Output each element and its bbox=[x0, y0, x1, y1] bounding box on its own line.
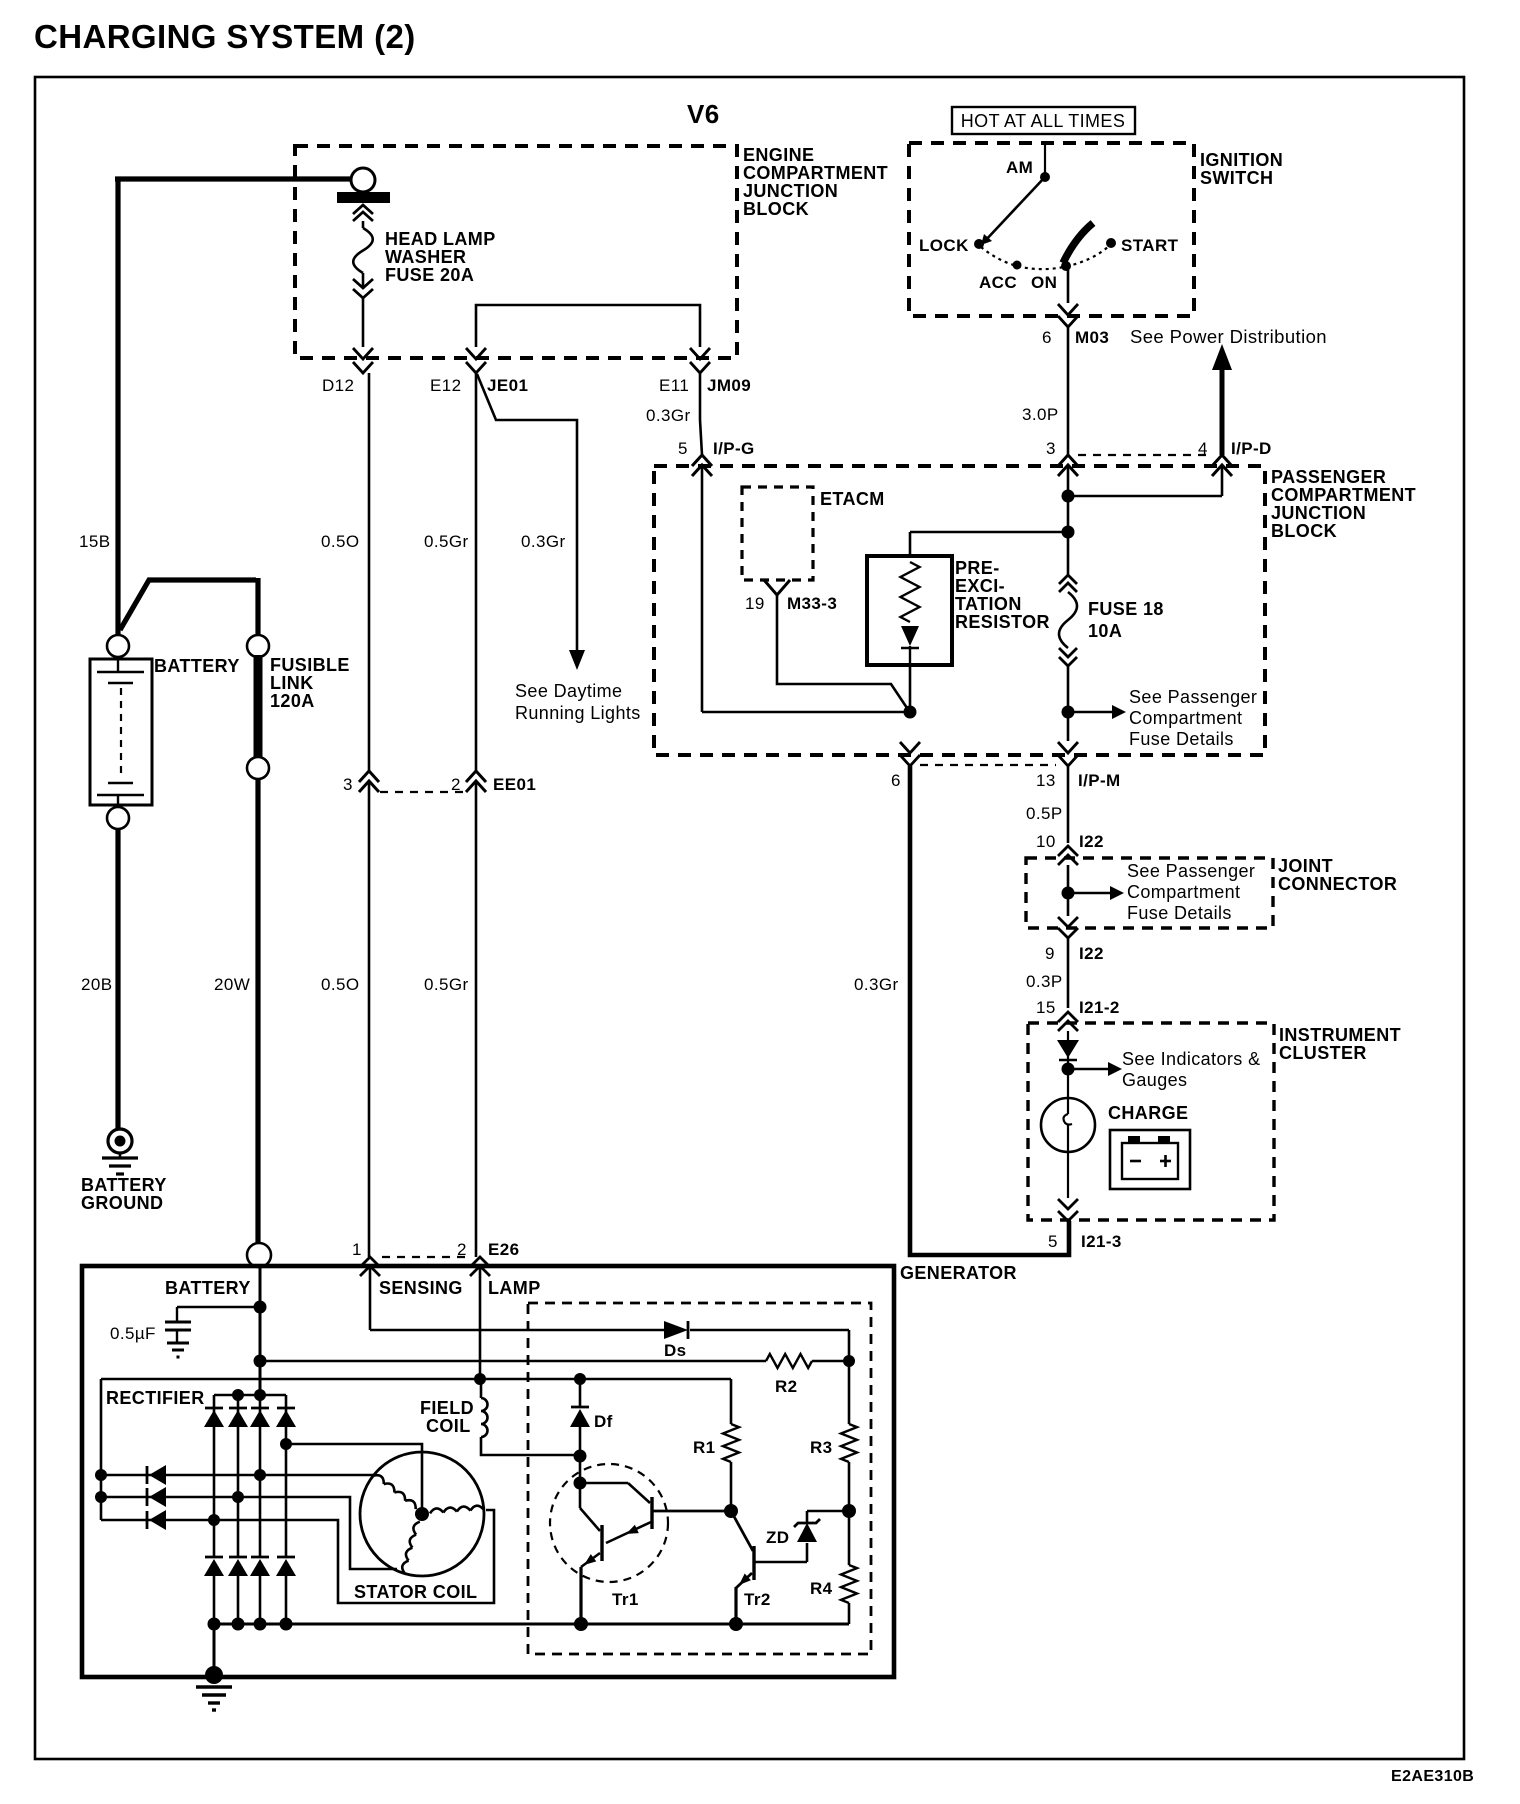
label HEAD LAMP WASHER FUSE 20A bbox=[385, 229, 496, 285]
stator coil circle bbox=[360, 1452, 484, 1576]
svg-text:Fuse Details: Fuse Details bbox=[1127, 903, 1232, 923]
resistor R4 bbox=[841, 1565, 857, 1603]
node Tr2 emitter rail bbox=[729, 1617, 743, 1631]
wire E11 to I/P-G bbox=[700, 373, 702, 455]
node START bbox=[1106, 236, 1179, 255]
svg-text:I21-2: I21-2 bbox=[1079, 998, 1120, 1017]
fuse 18 chevrons top bbox=[1059, 575, 1077, 592]
node Tr1 emitter rail bbox=[574, 1617, 588, 1631]
svg-text:SWITCH: SWITCH bbox=[1200, 168, 1273, 188]
resistor R3 bbox=[841, 1424, 857, 1462]
connector 5 I/P-G chevrons bbox=[692, 455, 712, 476]
svg-text:R2: R2 bbox=[775, 1377, 798, 1396]
svg-text:0.3Gr: 0.3Gr bbox=[854, 975, 899, 994]
label 5 I/P-G bbox=[678, 439, 755, 458]
label 15 I21-2 bbox=[1036, 998, 1120, 1017]
rectifier diode D1 top bbox=[204, 1408, 224, 1427]
generator battery terminal circle bbox=[247, 1243, 271, 1267]
wire to pre-excitation resistor bbox=[910, 532, 1068, 556]
label BATTERY GROUND bbox=[81, 1175, 167, 1213]
head lamp washer fuse chevrons top bbox=[353, 205, 373, 221]
battery terminal circle bottom bbox=[107, 807, 129, 829]
field coil lead top bbox=[480, 1379, 483, 1398]
charge battery icon bbox=[1110, 1130, 1190, 1189]
svg-text:CHARGING SYSTEM (2): CHARGING SYSTEM (2) bbox=[34, 18, 416, 55]
label 10 I22 bbox=[1036, 832, 1104, 851]
transistor Tr1 collector links bbox=[580, 1483, 650, 1531]
connector 5 I21-3 chevrons bbox=[1058, 1199, 1078, 1221]
node pre-excitation output bbox=[904, 706, 917, 719]
svg-text:0.5Gr: 0.5Gr bbox=[424, 975, 469, 994]
node phase1 col3 bbox=[254, 1469, 266, 1481]
svg-text:Ds: Ds bbox=[664, 1341, 687, 1360]
node AM bbox=[1006, 158, 1050, 182]
wire ON to M03 bbox=[1067, 266, 1070, 303]
node trio row1 bbox=[95, 1469, 107, 1481]
svg-text:I22: I22 bbox=[1079, 944, 1104, 963]
battery ground symbol bbox=[102, 1129, 138, 1174]
arrow see passenger fuse details joint bbox=[1068, 886, 1124, 900]
label ENGINE COMPARTMENT JUNCTION BLOCK bbox=[743, 145, 888, 219]
svg-text:BATTERY: BATTERY bbox=[81, 1175, 167, 1195]
transistor Tr2 emitter bbox=[736, 1573, 752, 1624]
fuse 18 element bbox=[1059, 592, 1077, 648]
wire L rail bbox=[101, 1378, 731, 1381]
rectifier column 2 lower bbox=[237, 1576, 240, 1624]
wire Ds line bbox=[370, 1330, 849, 1361]
label R2 bbox=[775, 1377, 798, 1396]
wire I/P-G vertical bbox=[702, 465, 904, 712]
label ZD bbox=[766, 1528, 789, 1547]
label 0.3Gr generator bbox=[854, 975, 899, 994]
label 6 M03 bbox=[1042, 328, 1109, 347]
transistor Tr1 driver base bar bbox=[650, 1497, 653, 1529]
svg-text:E2AE310B: E2AE310B bbox=[1391, 1768, 1474, 1785]
label 15B bbox=[79, 532, 110, 551]
connector 15 chevrons bbox=[1058, 1012, 1078, 1031]
svg-text:0.3Gr: 0.3Gr bbox=[521, 532, 566, 551]
label CHARGE bbox=[1108, 1103, 1188, 1123]
label 3 pin pcjb bbox=[1046, 439, 1056, 458]
wire 0.3P bbox=[1067, 938, 1070, 1008]
node fuse detail branch bbox=[1062, 706, 1075, 719]
wire resistor to node 6 bbox=[909, 665, 912, 712]
fusible link circle bottom bbox=[247, 757, 269, 779]
label R3 bbox=[810, 1438, 833, 1457]
svg-text:M03: M03 bbox=[1075, 328, 1109, 347]
fusible link circle top bbox=[247, 635, 269, 657]
instrument cluster input diode bbox=[1057, 1040, 1079, 1060]
svg-text:JM09: JM09 bbox=[707, 376, 751, 395]
label 0.5O lower bbox=[321, 975, 359, 994]
rectifier trio diode DT1 bbox=[147, 1465, 166, 1485]
wire battery feed horizontal bbox=[115, 176, 350, 181]
svg-text:BATTERY: BATTERY bbox=[154, 656, 240, 676]
svg-text:R4: R4 bbox=[810, 1579, 833, 1598]
svg-text:3.0P: 3.0P bbox=[1022, 405, 1059, 424]
connector 4 chevrons pcjb bbox=[1212, 455, 1232, 476]
connector 3 chevrons pcjb bbox=[1058, 455, 1078, 476]
label ETACM bbox=[820, 489, 885, 509]
zener ZD bbox=[794, 1511, 849, 1542]
svg-text:ENGINE: ENGINE bbox=[743, 145, 814, 165]
field coil lead bottom bbox=[481, 1437, 580, 1455]
diode trio output wire bbox=[100, 1379, 103, 1520]
svg-text:5: 5 bbox=[678, 439, 688, 458]
svg-text:STATOR COIL: STATOR COIL bbox=[354, 1582, 477, 1602]
phase row 2 wire bbox=[101, 1497, 397, 1569]
svg-text:CLUSTER: CLUSTER bbox=[1279, 1043, 1367, 1063]
capacitor branch wire bbox=[177, 1306, 260, 1309]
svg-text:LOCK: LOCK bbox=[919, 236, 969, 255]
label 2 pin EE01 bbox=[451, 775, 461, 794]
svg-text:0.3P: 0.3P bbox=[1026, 972, 1063, 991]
node R3-ZD bbox=[842, 1504, 856, 1518]
rectifier column 1 lower bbox=[213, 1576, 216, 1624]
stator neutral wire bbox=[286, 1444, 422, 1512]
svg-text:3: 3 bbox=[1046, 439, 1056, 458]
svg-text:0.5O: 0.5O bbox=[321, 532, 359, 551]
svg-text:AM: AM bbox=[1006, 158, 1033, 177]
label E12 bbox=[430, 376, 461, 395]
label See Indicators & Gauges bbox=[1122, 1049, 1260, 1090]
svg-text:PRE-: PRE- bbox=[955, 558, 1000, 578]
svg-text:0.5Gr: 0.5Gr bbox=[424, 532, 469, 551]
label 3 pin bbox=[343, 775, 353, 794]
node LOCK bbox=[919, 236, 984, 255]
svg-text:BLOCK: BLOCK bbox=[1271, 521, 1337, 541]
label BATTERY generator bbox=[165, 1278, 251, 1298]
wire 15B vertical bbox=[115, 177, 120, 635]
svg-text:120A: 120A bbox=[270, 691, 315, 711]
svg-text:RESISTOR: RESISTOR bbox=[955, 612, 1050, 632]
svg-text:4: 4 bbox=[1198, 439, 1208, 458]
joint connector box bbox=[1026, 858, 1273, 928]
fusible link thick element bbox=[254, 655, 263, 758]
svg-text:20W: 20W bbox=[214, 975, 250, 994]
node bus col3 bbox=[254, 1389, 266, 1401]
svg-text:6: 6 bbox=[891, 771, 901, 790]
svg-text:PASSENGER: PASSENGER bbox=[1271, 467, 1386, 487]
transistor Tr1 circle bbox=[550, 1464, 668, 1582]
node ACC bbox=[979, 261, 1022, 293]
connector 6 chevrons pcjb bottom bbox=[900, 742, 920, 766]
svg-text:I21-3: I21-3 bbox=[1081, 1232, 1122, 1251]
fuse terminal circle bbox=[351, 168, 375, 192]
svg-text:0.3Gr: 0.3Gr bbox=[646, 406, 691, 425]
node Ds-R2-R3 bbox=[843, 1355, 855, 1367]
rectifier diode D5 bottom bbox=[204, 1557, 224, 1576]
svg-text:M33-3: M33-3 bbox=[787, 594, 837, 613]
node battery-R2 bbox=[254, 1355, 267, 1368]
transistor Tr2 base bar bbox=[752, 1546, 755, 1580]
rectifier top bus bbox=[214, 1394, 286, 1396]
connector EE01 dashed link bbox=[380, 791, 464, 793]
wire JE01 0.3Gr branch bbox=[477, 374, 577, 650]
node pcjb junction resistor bbox=[1062, 526, 1075, 539]
wire 0.5Gr lower bbox=[475, 781, 478, 1257]
hot at all times box bbox=[952, 107, 1135, 134]
transistor Tr1 output emitter bbox=[581, 1553, 600, 1624]
stator neutral node bbox=[415, 1507, 429, 1521]
label 1 pin generator bbox=[352, 1240, 362, 1259]
rectifier diode D7 bottom bbox=[250, 1557, 270, 1576]
node R1-Tr2-base bbox=[724, 1504, 738, 1518]
label E11 bbox=[659, 376, 689, 395]
svg-text:V6: V6 bbox=[687, 99, 720, 129]
svg-text:10A: 10A bbox=[1088, 621, 1122, 641]
arrow see power distribution bbox=[1212, 344, 1232, 455]
svg-text:9: 9 bbox=[1045, 944, 1055, 963]
ignition detent arc bbox=[981, 246, 1109, 269]
label JE01 bbox=[487, 376, 528, 395]
wire sensing lead bbox=[369, 1266, 372, 1330]
svg-text:HEAD LAMP: HEAD LAMP bbox=[385, 229, 496, 249]
label Tr2 bbox=[744, 1590, 771, 1609]
connector 2 chevrons EE01 bbox=[466, 771, 486, 792]
svg-text:R3: R3 bbox=[810, 1438, 833, 1457]
connector M03 chevrons bbox=[1058, 304, 1078, 327]
wire M33-3 to resistor node bbox=[777, 594, 909, 711]
node phase2 col2 bbox=[232, 1491, 244, 1503]
label 0.5Gr lower bbox=[424, 975, 469, 994]
ETACM box bbox=[742, 487, 813, 580]
svg-text:COMPARTMENT: COMPARTMENT bbox=[743, 163, 888, 183]
generator ground rail bbox=[214, 1623, 849, 1626]
svg-text:E26: E26 bbox=[488, 1240, 519, 1259]
wire R2 rail bbox=[260, 1360, 849, 1363]
resistor R3 wire bbox=[848, 1361, 851, 1511]
transistor Tr2 collector bbox=[731, 1511, 753, 1551]
label EE01 bbox=[493, 775, 536, 794]
node pcjb junction upper bbox=[1062, 490, 1075, 503]
rectifier diode D3 top bbox=[250, 1408, 270, 1427]
svg-text:1: 1 bbox=[352, 1240, 362, 1259]
diode Df bbox=[570, 1407, 590, 1483]
wire lamp lead bbox=[479, 1266, 482, 1379]
svg-text:RECTIFIER: RECTIFIER bbox=[106, 1388, 205, 1408]
svg-text:Tr1: Tr1 bbox=[612, 1590, 639, 1609]
svg-text:EE01: EE01 bbox=[493, 775, 536, 794]
svg-text:CHARGE: CHARGE bbox=[1108, 1103, 1188, 1123]
svg-text:JOINT: JOINT bbox=[1278, 856, 1333, 876]
rectifier trio diode DT3 bbox=[147, 1510, 166, 1530]
label IGNITION SWITCH bbox=[1200, 150, 1283, 188]
diode Ds bbox=[664, 1321, 688, 1339]
svg-text:2: 2 bbox=[451, 775, 461, 794]
svg-text:E11: E11 bbox=[659, 376, 689, 395]
svg-text:TATION: TATION bbox=[955, 594, 1022, 614]
stator winding upper bbox=[373, 1475, 416, 1509]
node Tr1 collector bbox=[574, 1477, 587, 1490]
svg-text:COIL: COIL bbox=[426, 1416, 471, 1436]
transistor Tr1 driver emitter bbox=[606, 1522, 651, 1543]
svg-text:FUSE 20A: FUSE 20A bbox=[385, 265, 474, 285]
node Df top bbox=[574, 1373, 586, 1385]
connector 9 chevrons bbox=[1058, 917, 1078, 938]
battery terminal circle top bbox=[107, 635, 129, 657]
svg-text:I/P-D: I/P-D bbox=[1231, 439, 1272, 458]
wire fuse18 to node bbox=[1067, 666, 1070, 741]
rectifier column 2 bbox=[237, 1395, 240, 1557]
charge lamp bulb bbox=[1041, 1098, 1095, 1152]
label GENERATOR bbox=[900, 1263, 1017, 1283]
svg-text:ACC: ACC bbox=[979, 273, 1017, 292]
title CHARGING SYSTEM (2) bbox=[34, 18, 416, 55]
arrow see indicators bbox=[1068, 1062, 1122, 1076]
svg-text:Running Lights: Running Lights bbox=[515, 703, 641, 723]
label 20B bbox=[81, 975, 112, 994]
svg-text:15B: 15B bbox=[79, 532, 110, 551]
svg-text:0.5P: 0.5P bbox=[1026, 804, 1063, 823]
fuse holder bar bbox=[337, 192, 390, 203]
label 5 I21-3 bbox=[1048, 1232, 1122, 1251]
svg-text:ETACM: ETACM bbox=[820, 489, 885, 509]
wire AM feed bbox=[1044, 144, 1046, 176]
fuse 18 chevrons bottom bbox=[1059, 648, 1077, 666]
connector M33-3 chevron bbox=[764, 580, 790, 595]
label 3.0P bbox=[1022, 405, 1059, 424]
wire 20B vertical bbox=[115, 829, 120, 1130]
node trio row2 bbox=[95, 1491, 107, 1503]
wire 0.3Gr generator to cluster bbox=[910, 766, 1069, 1255]
svg-text:19: 19 bbox=[745, 594, 765, 613]
connector 10 chevrons bbox=[1058, 846, 1078, 865]
ignition lever bbox=[981, 177, 1045, 245]
label JM09 bbox=[707, 376, 751, 395]
instrument cluster box bbox=[1028, 1023, 1274, 1220]
svg-text:Fuse Details: Fuse Details bbox=[1129, 729, 1234, 749]
svg-text:See Passenger: See Passenger bbox=[1127, 861, 1255, 881]
connector E11 chevrons bbox=[690, 348, 710, 373]
label 0.5uF bbox=[110, 1324, 156, 1343]
node rail col3 bbox=[254, 1618, 267, 1631]
label FIELD COIL bbox=[420, 1398, 474, 1436]
label See Power Distribution bbox=[1130, 326, 1327, 347]
svg-text:FUSIBLE: FUSIBLE bbox=[270, 655, 350, 675]
wire to I/P-D bbox=[1068, 465, 1222, 496]
svg-text:LINK: LINK bbox=[270, 673, 314, 693]
label BATTERY bbox=[154, 656, 240, 676]
connector 3-4 dashed link bbox=[1078, 454, 1210, 456]
label 0.3Gr daytime bbox=[521, 532, 566, 551]
label JOINT CONNECTOR bbox=[1278, 856, 1397, 894]
svg-text:Compartment: Compartment bbox=[1127, 882, 1240, 902]
node bus col2 bbox=[232, 1389, 244, 1401]
svg-text:JUNCTION: JUNCTION bbox=[1271, 503, 1366, 523]
svg-text:3: 3 bbox=[343, 775, 353, 794]
svg-text:GROUND: GROUND bbox=[81, 1193, 163, 1213]
head lamp washer fuse chevrons bottom bbox=[353, 279, 373, 298]
resistor R1 wire bbox=[730, 1379, 733, 1511]
svg-text:LAMP: LAMP bbox=[488, 1278, 541, 1298]
label V6 bbox=[687, 99, 720, 129]
node phase3 col1 bbox=[208, 1514, 220, 1526]
svg-text:13: 13 bbox=[1036, 771, 1056, 790]
svg-text:START: START bbox=[1121, 236, 1179, 255]
label D12 bbox=[322, 376, 354, 395]
transistor Tr1 output base bar bbox=[600, 1525, 603, 1561]
wire 0.5O lower bbox=[368, 781, 371, 1257]
svg-text:JE01: JE01 bbox=[487, 376, 528, 395]
node generator battery bbox=[254, 1301, 267, 1314]
svg-text:0.5µF: 0.5µF bbox=[110, 1324, 156, 1343]
svg-text:D12: D12 bbox=[322, 376, 354, 395]
svg-text:FIELD: FIELD bbox=[420, 1398, 474, 1418]
svg-text:Compartment: Compartment bbox=[1129, 708, 1242, 728]
wire cluster internal upper bbox=[1067, 1031, 1069, 1098]
code E2AE310B bbox=[1391, 1768, 1474, 1785]
arrow see daytime running lights bbox=[569, 650, 585, 670]
svg-text:BATTERY: BATTERY bbox=[165, 1278, 251, 1298]
svg-text:GENERATOR: GENERATOR bbox=[900, 1263, 1017, 1283]
svg-text:I/P-G: I/P-G bbox=[713, 439, 755, 458]
wire circle stub bbox=[348, 178, 352, 180]
svg-text:IGNITION: IGNITION bbox=[1200, 150, 1283, 170]
arrow see passenger fuse details pcjb bbox=[1068, 705, 1126, 719]
label 13 I/P-M bbox=[1036, 771, 1121, 790]
svg-text:ON: ON bbox=[1031, 273, 1057, 292]
wire fusible link feed bbox=[120, 578, 258, 635]
node joint connector branch bbox=[1062, 887, 1075, 900]
svg-text:SENSING: SENSING bbox=[379, 1278, 463, 1298]
label PRE-EXCITATION RESISTOR bbox=[955, 558, 1050, 632]
label 0.3Gr ipg bbox=[646, 406, 691, 425]
svg-text:R1: R1 bbox=[693, 1438, 716, 1457]
label RECTIFIER bbox=[106, 1388, 205, 1408]
label Ds bbox=[664, 1341, 687, 1360]
node rail col2 bbox=[232, 1618, 245, 1631]
svg-text:See Passenger: See Passenger bbox=[1129, 687, 1257, 707]
passenger compartment junction block box bbox=[654, 466, 1265, 755]
label 9 I22 bbox=[1045, 944, 1104, 963]
label See Daytime Running Lights bbox=[515, 681, 641, 723]
svg-text:20B: 20B bbox=[81, 975, 112, 994]
svg-text:BLOCK: BLOCK bbox=[743, 199, 809, 219]
label Df bbox=[594, 1412, 613, 1431]
node field coil-Df bbox=[574, 1450, 587, 1463]
label See Passenger Compartment Fuse Details joint bbox=[1127, 861, 1255, 923]
svg-text:CONNECTOR: CONNECTOR bbox=[1278, 874, 1397, 894]
pre-excitation resistor diode bbox=[901, 626, 919, 665]
svg-text:See Daytime: See Daytime bbox=[515, 681, 622, 701]
svg-text:6: 6 bbox=[1042, 328, 1052, 347]
head lamp washer fuse element bbox=[353, 221, 373, 287]
wire pcjb main vertical upper bbox=[1067, 465, 1070, 575]
ignition ON arc bbox=[1063, 223, 1093, 263]
connector D12 chevrons bbox=[353, 348, 373, 373]
generator box bbox=[82, 1266, 894, 1677]
svg-text:E12: E12 bbox=[430, 376, 461, 395]
wire fuse to D12 bbox=[362, 298, 365, 347]
connector 1-2 dashed link bbox=[382, 1256, 466, 1258]
svg-text:FUSE 18: FUSE 18 bbox=[1088, 599, 1164, 619]
wire 0.5O upper bbox=[368, 373, 371, 771]
resistor R2 bbox=[766, 1354, 812, 1368]
wire Df vertical bbox=[579, 1379, 582, 1407]
label INSTRUMENT CLUSTER bbox=[1279, 1025, 1401, 1063]
svg-text:10: 10 bbox=[1036, 832, 1056, 851]
battery plates bbox=[97, 657, 144, 807]
label FUSIBLE LINK 120A bbox=[270, 655, 350, 711]
svg-text:See Power Distribution: See Power Distribution bbox=[1130, 326, 1327, 347]
connector 13 chevrons bbox=[1058, 742, 1078, 766]
svg-text:Gauges: Gauges bbox=[1122, 1070, 1187, 1090]
label 20W bbox=[214, 975, 250, 994]
svg-text:COMPARTMENT: COMPARTMENT bbox=[1271, 485, 1416, 505]
svg-text:I22: I22 bbox=[1079, 832, 1104, 851]
rectifier diode D8 bottom bbox=[276, 1557, 296, 1576]
